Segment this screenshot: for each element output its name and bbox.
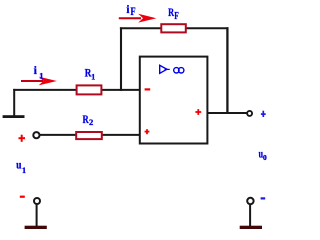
svg-text:R: R <box>83 112 89 126</box>
output minus mark (blue) <box>261 197 266 199</box>
wire feedback right drop <box>226 27 228 114</box>
wire left drop to ground <box>13 89 15 116</box>
input minus mark <box>20 196 25 198</box>
ground (top-left bar) <box>3 115 25 118</box>
wire output <box>207 112 247 114</box>
output terminal circle <box>247 111 252 116</box>
ground (bottom-right maroon bar) <box>240 226 262 229</box>
wire feedback top horizontal <box>120 27 229 29</box>
op-amp inverting input minus mark <box>145 88 151 90</box>
op-amp triangle symbol <box>160 65 167 73</box>
op-amp U1 body <box>140 57 208 144</box>
svg-text:1: 1 <box>91 72 95 81</box>
wire bottom-right terminal to ground <box>249 205 251 226</box>
svg-text:F: F <box>130 4 135 18</box>
input terminal plus circle <box>33 132 39 138</box>
resistor R1 <box>77 85 102 94</box>
svg-text:1: 1 <box>22 166 26 175</box>
svg-text:0: 0 <box>263 153 267 162</box>
wire inverting-input horizontal <box>13 89 140 91</box>
wire non-inverting input horizontal <box>40 134 141 136</box>
current arrow iF <box>119 17 141 19</box>
ground (bottom-left maroon bar) <box>25 226 47 229</box>
input plus mark <box>19 137 26 139</box>
op-amp infinity gain symbol <box>174 68 179 73</box>
svg-text:1: 1 <box>39 70 43 80</box>
input terminal minus circle (bottom-left) <box>34 198 40 204</box>
resistor RF <box>161 24 186 32</box>
resistor R2 <box>76 132 102 139</box>
output terminal minus circle (bottom-right) <box>247 198 253 204</box>
output plus mark (blue) <box>261 113 266 115</box>
svg-text:F: F <box>174 10 179 22</box>
op-amp output plus mark <box>195 111 201 113</box>
wire feedback riser <box>120 27 122 91</box>
svg-text:2: 2 <box>89 117 93 127</box>
op-amp non-inverting input plus mark <box>145 131 150 133</box>
current arrow i1 <box>21 80 43 82</box>
wire bottom-left terminal to ground <box>36 205 38 226</box>
